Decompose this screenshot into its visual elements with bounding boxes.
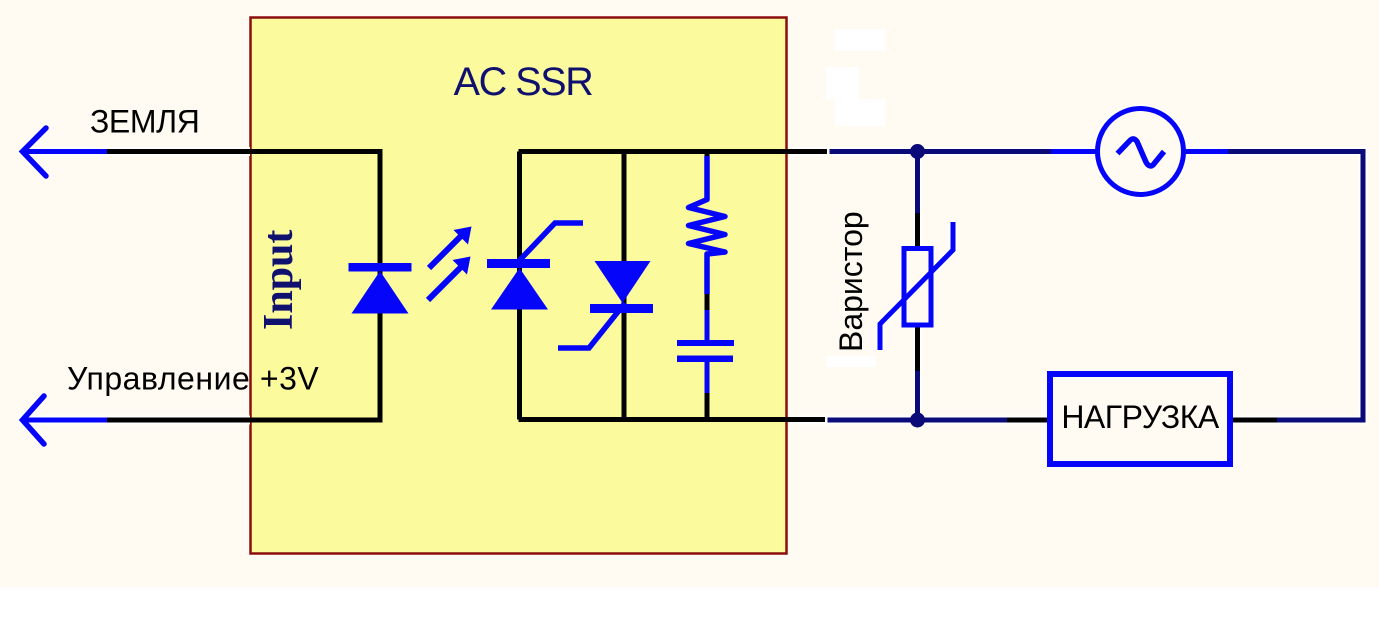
svg-text:ЗЕМЛЯ: ЗЕМЛЯ [90,104,199,140]
svg-text:НАГРУЗКА: НАГРУЗКА [1061,399,1220,435]
svg-text:Input: Input [256,230,302,330]
svg-text:AC SSR: AC SSR [454,60,593,104]
svg-text:Управление +3V: Управление +3V [67,361,319,397]
svg-text:Варистор: Варистор [833,211,869,352]
